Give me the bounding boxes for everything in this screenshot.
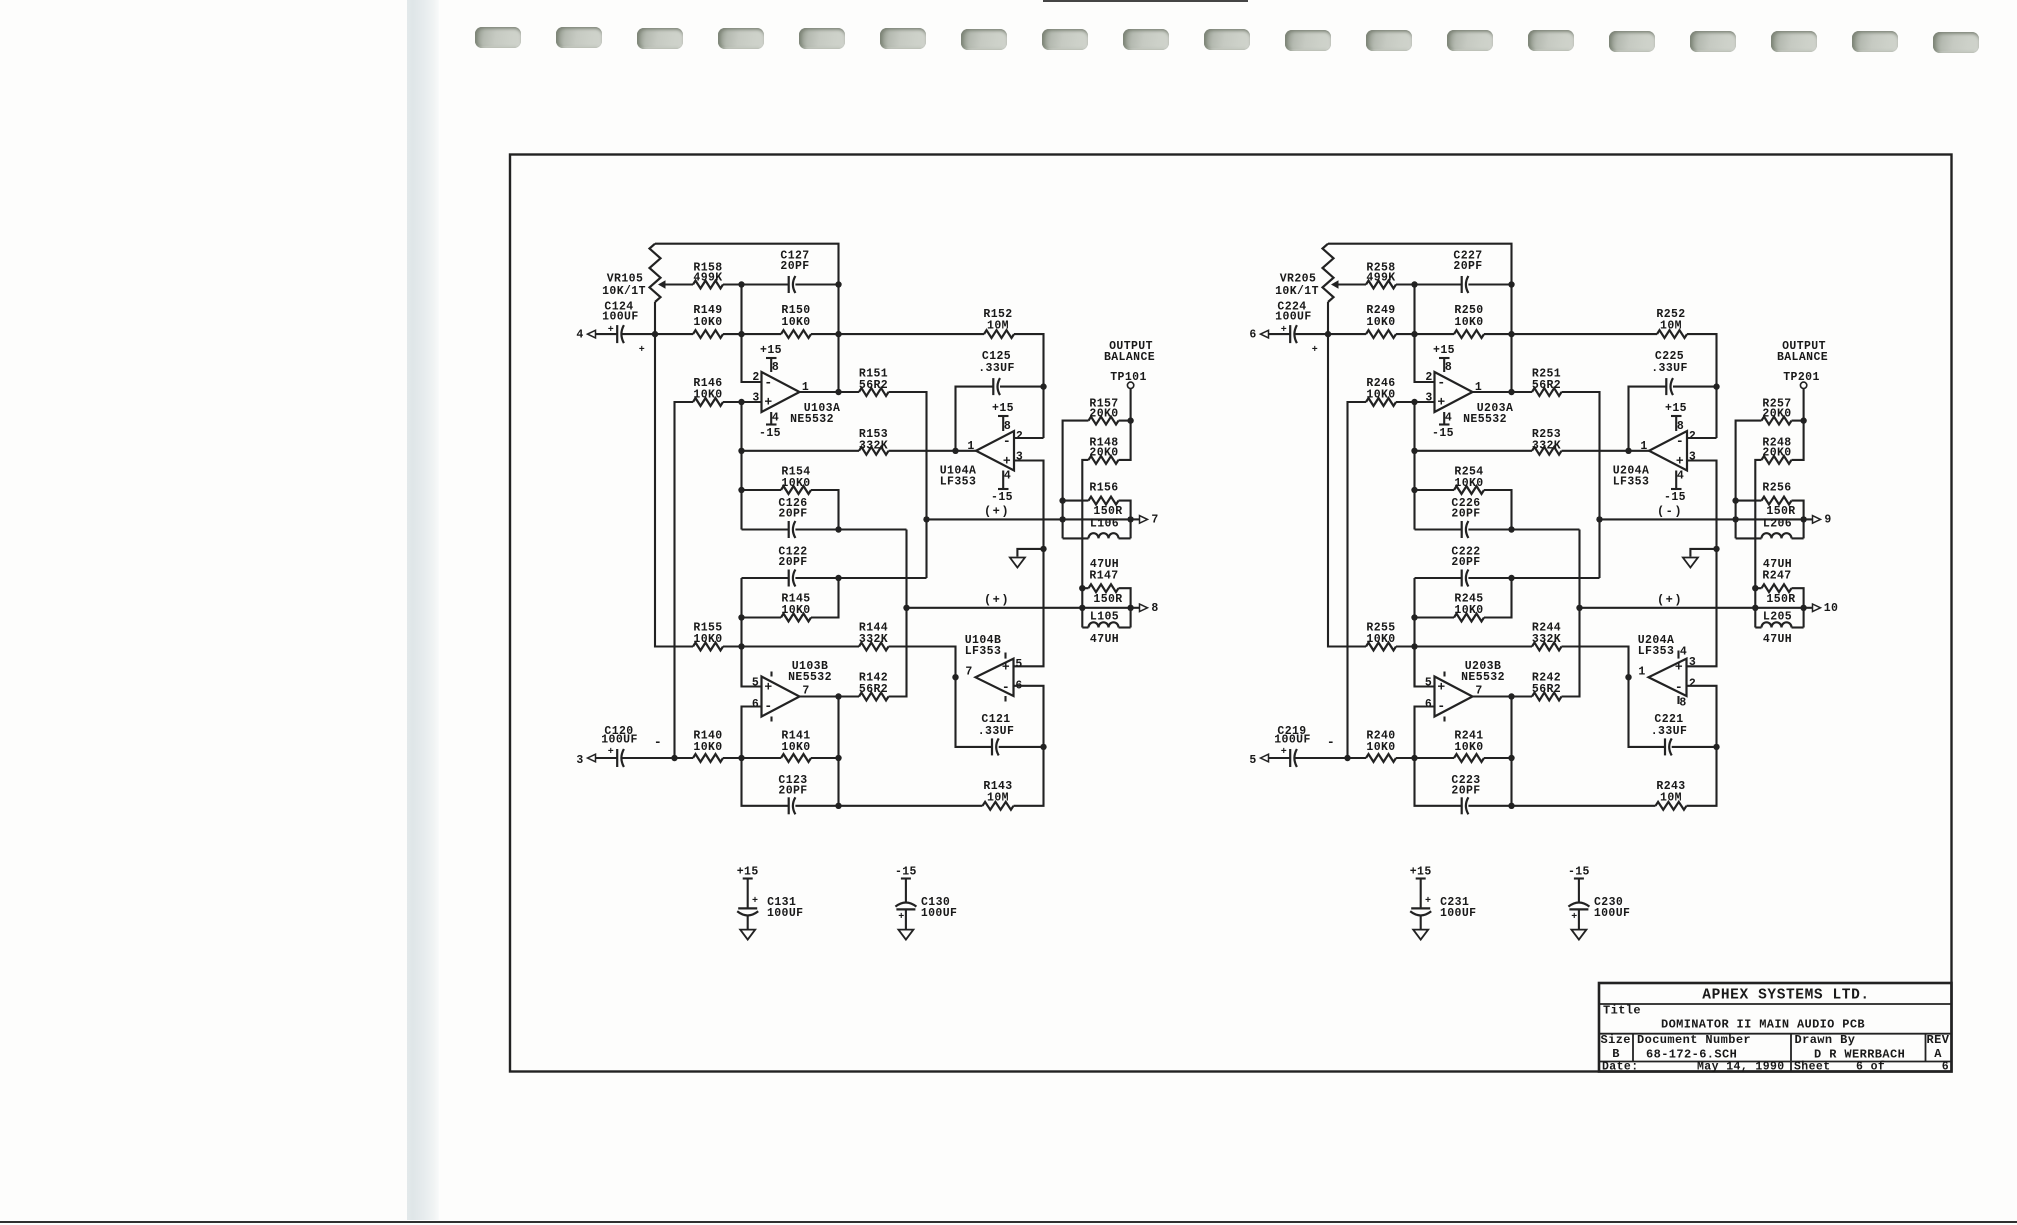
output terminal 10 bbox=[1804, 607, 1813, 609]
inductor L205 47UH bbox=[1762, 622, 1792, 627]
node bbox=[1508, 575, 1514, 581]
svg-text:LF353: LF353 bbox=[1638, 645, 1675, 658]
node bbox=[1508, 803, 1514, 809]
svg-text:1: 1 bbox=[1638, 666, 1645, 679]
resistor R248 20K0 bbox=[1762, 456, 1792, 464]
svg-text:R256: R256 bbox=[1762, 482, 1791, 495]
resistor R255 10K0 bbox=[1366, 643, 1396, 651]
capacitor C230 100UF polarized bbox=[1568, 902, 1589, 906]
svg-text:4: 4 bbox=[1677, 470, 1684, 483]
wire bbox=[1629, 387, 1667, 451]
svg-text:-: - bbox=[1437, 375, 1445, 390]
resistor R140 10K0 bbox=[693, 754, 723, 762]
wire vertical pin3 node bbox=[1413, 402, 1415, 530]
svg-text:R147: R147 bbox=[1089, 570, 1118, 583]
wire pin1 to node bbox=[1629, 450, 1650, 452]
node bbox=[1713, 546, 1719, 552]
wire bbox=[1269, 333, 1291, 335]
resistor R256 150R bbox=[1762, 497, 1792, 505]
resistor R148 20K0 bbox=[1089, 456, 1119, 464]
capacitor C120 100UF bbox=[616, 749, 618, 767]
svg-text:10K0: 10K0 bbox=[1454, 741, 1483, 754]
svg-text:+15: +15 bbox=[992, 402, 1014, 415]
node bbox=[1040, 383, 1046, 389]
resistor R258 499K bbox=[1366, 281, 1396, 289]
resistor R152 10M bbox=[984, 330, 1014, 338]
svg-text:10M: 10M bbox=[1660, 320, 1682, 333]
svg-text:10K0: 10K0 bbox=[693, 389, 722, 402]
ground bbox=[1017, 549, 1043, 557]
svg-text:3: 3 bbox=[1689, 451, 1696, 464]
svg-text:499K: 499K bbox=[1366, 272, 1395, 285]
wire bbox=[956, 677, 993, 747]
resistor R252 10M bbox=[1657, 330, 1687, 338]
resistor R242 56R2 bbox=[1532, 693, 1562, 701]
wire bbox=[1415, 577, 1462, 579]
wire bbox=[1736, 500, 1762, 502]
node bbox=[1576, 605, 1582, 611]
svg-text:REV: REV bbox=[1927, 1033, 1950, 1047]
wire output node vertical bbox=[1510, 697, 1512, 806]
capacitor C126 20PF bbox=[788, 521, 790, 538]
svg-text:332K: 332K bbox=[1532, 633, 1561, 646]
svg-text:-15: -15 bbox=[895, 866, 917, 879]
wire bbox=[742, 577, 789, 579]
wire bbox=[1484, 490, 1512, 530]
wire bbox=[1000, 386, 1044, 388]
svg-text:VR105: VR105 bbox=[607, 272, 644, 285]
node bbox=[835, 526, 841, 532]
resistor R151 56R2 bbox=[859, 388, 889, 396]
node bbox=[738, 281, 744, 287]
svg-text:6 of: 6 of bbox=[1856, 1061, 1885, 1074]
wire bbox=[1327, 302, 1329, 333]
svg-text:3: 3 bbox=[576, 754, 583, 767]
wire bbox=[795, 577, 926, 579]
wire bbox=[811, 757, 839, 759]
svg-text:7: 7 bbox=[1475, 685, 1482, 698]
svg-text:7: 7 bbox=[965, 666, 972, 679]
svg-text:10M: 10M bbox=[987, 792, 1009, 805]
wire bbox=[795, 283, 838, 285]
svg-text:7: 7 bbox=[802, 685, 809, 698]
wire bbox=[1296, 333, 1329, 335]
svg-text:L105: L105 bbox=[1090, 611, 1119, 624]
svg-text:+: + bbox=[1281, 325, 1287, 336]
svg-text:.33UF: .33UF bbox=[1651, 362, 1688, 375]
wire pin6 to C121 bbox=[1687, 686, 1717, 747]
svg-text:2: 2 bbox=[1689, 678, 1696, 691]
title block row dividers bbox=[1599, 1003, 1952, 1005]
svg-text:20PF: 20PF bbox=[778, 556, 807, 569]
resistor R150 10K0 bbox=[781, 330, 811, 338]
wire bbox=[925, 519, 927, 578]
wire bbox=[956, 387, 994, 451]
svg-text:LF353: LF353 bbox=[940, 476, 977, 489]
capacitor C225 .33UF bbox=[1665, 378, 1667, 395]
node bbox=[671, 755, 677, 761]
svg-text:+: + bbox=[608, 747, 614, 758]
wire bbox=[740, 285, 742, 335]
wire bbox=[839, 391, 860, 393]
node bbox=[738, 331, 744, 337]
svg-text:10M: 10M bbox=[1660, 792, 1682, 805]
svg-text:2: 2 bbox=[1425, 371, 1432, 384]
svg-text:20PF: 20PF bbox=[780, 260, 809, 273]
wire bbox=[1736, 421, 1762, 539]
svg-text:A: A bbox=[1934, 1047, 1942, 1061]
svg-text:(+): (+) bbox=[984, 593, 1010, 607]
inductor L206 47UH bbox=[1762, 533, 1792, 538]
power -15 supply bbox=[770, 412, 772, 425]
wire bbox=[889, 392, 927, 519]
svg-text:20PF: 20PF bbox=[778, 508, 807, 521]
svg-text:5: 5 bbox=[1249, 754, 1256, 767]
wire bbox=[795, 805, 982, 807]
wire bbox=[795, 528, 906, 530]
svg-text:4: 4 bbox=[576, 328, 583, 341]
svg-text:10K0: 10K0 bbox=[781, 741, 810, 754]
wire bbox=[723, 333, 781, 335]
node bbox=[1713, 744, 1719, 750]
capacitor C123 20PF bbox=[788, 797, 790, 814]
svg-text:.33UF: .33UF bbox=[978, 725, 1015, 738]
wire bbox=[889, 608, 907, 697]
node bbox=[738, 614, 744, 620]
node bbox=[1752, 585, 1758, 591]
svg-text:100UF: 100UF bbox=[602, 310, 639, 323]
wire vertical pin3 node bbox=[740, 402, 742, 530]
svg-text:+15: +15 bbox=[737, 866, 759, 879]
wire pin3 bbox=[1687, 461, 1717, 667]
svg-text:20K0: 20K0 bbox=[1089, 408, 1118, 421]
wire bbox=[1736, 537, 1762, 539]
power -15 supply bbox=[1002, 471, 1004, 490]
wire bbox=[1396, 333, 1454, 335]
svg-text:+15: +15 bbox=[760, 344, 782, 357]
wire bbox=[723, 645, 859, 647]
wire bbox=[1755, 626, 1761, 628]
wire bbox=[655, 333, 693, 335]
wire bbox=[1119, 421, 1131, 460]
svg-text:BALANCE: BALANCE bbox=[1777, 351, 1828, 364]
svg-text:.33UF: .33UF bbox=[1651, 725, 1688, 738]
svg-text:10K0: 10K0 bbox=[693, 316, 722, 329]
op-amp U104B LF353 bbox=[976, 659, 1014, 696]
wire bbox=[1484, 578, 1512, 618]
wire bbox=[1396, 757, 1454, 759]
output terminal 9 bbox=[1804, 518, 1813, 520]
node bbox=[1732, 497, 1738, 503]
svg-text:100UF: 100UF bbox=[1274, 734, 1311, 747]
wire bbox=[1578, 578, 1580, 608]
node pin3 bbox=[738, 399, 744, 405]
svg-text:3: 3 bbox=[752, 392, 759, 405]
resistor R250 10K0 bbox=[1454, 330, 1484, 338]
svg-text:APHEX SYSTEMS LTD.: APHEX SYSTEMS LTD. bbox=[1702, 987, 1869, 1003]
wire bbox=[1792, 626, 1804, 628]
svg-text:20PF: 20PF bbox=[778, 785, 807, 798]
svg-text:(-): (-) bbox=[1657, 505, 1683, 519]
svg-text:Document Number: Document Number bbox=[1637, 1033, 1751, 1047]
resistor R146 10K0 bbox=[693, 398, 723, 406]
wire pin2 feed bbox=[1415, 334, 1435, 382]
svg-text:56R2: 56R2 bbox=[859, 683, 888, 696]
wire bbox=[1792, 501, 1804, 539]
svg-text:NE5532: NE5532 bbox=[1463, 413, 1507, 426]
wire bbox=[1598, 519, 1600, 578]
resistor R155 10K0 bbox=[693, 643, 723, 651]
svg-text:1: 1 bbox=[1475, 381, 1482, 394]
svg-text:4: 4 bbox=[1445, 412, 1452, 425]
svg-text:100UF: 100UF bbox=[1440, 907, 1477, 920]
capacitor C224 100UF bbox=[1289, 325, 1291, 343]
svg-text:-15: -15 bbox=[1432, 427, 1454, 440]
ground bbox=[1413, 930, 1428, 940]
wire bbox=[654, 302, 656, 333]
svg-text:L206: L206 bbox=[1763, 518, 1792, 531]
wire bbox=[1296, 757, 1348, 759]
svg-text:+: + bbox=[1571, 912, 1577, 923]
node bbox=[1059, 497, 1065, 503]
svg-text:6: 6 bbox=[1425, 698, 1432, 711]
node bbox=[835, 389, 841, 395]
svg-text:5: 5 bbox=[1425, 677, 1432, 690]
svg-text:20PF: 20PF bbox=[1451, 785, 1480, 798]
svg-text:332K: 332K bbox=[859, 440, 888, 453]
svg-text:Sheet: Sheet bbox=[1794, 1061, 1831, 1074]
svg-text:4: 4 bbox=[1680, 646, 1687, 659]
svg-text:+: + bbox=[1002, 659, 1010, 674]
wire bbox=[1269, 757, 1291, 759]
svg-text:+: + bbox=[898, 912, 904, 923]
wire bbox=[1348, 402, 1367, 758]
svg-text:R156: R156 bbox=[1089, 482, 1118, 495]
svg-text:+: + bbox=[1425, 896, 1431, 907]
page bottom edge line bbox=[0, 1221, 2017, 1224]
wire bbox=[1792, 420, 1804, 422]
wire output U103A pin1 bbox=[800, 391, 839, 393]
wire pin2 feed bbox=[742, 334, 762, 382]
svg-text:-: - bbox=[1327, 734, 1335, 749]
net (+) lower output row bbox=[1580, 607, 1804, 609]
svg-text:2: 2 bbox=[1689, 430, 1696, 443]
resistor R141 10K0 bbox=[781, 754, 811, 762]
svg-text:TP101: TP101 bbox=[1110, 371, 1147, 384]
svg-text:10K0: 10K0 bbox=[693, 741, 722, 754]
svg-text:150R: 150R bbox=[1766, 593, 1795, 606]
svg-text:20K0: 20K0 bbox=[1089, 447, 1118, 460]
capacitor C130 100UF polarized bbox=[895, 902, 916, 906]
node bbox=[835, 803, 841, 809]
node bbox=[1411, 643, 1417, 649]
wire bbox=[1687, 334, 1717, 438]
op-amp U104A LF353 bbox=[976, 431, 1014, 471]
wire bbox=[742, 616, 782, 618]
svg-text:(+): (+) bbox=[984, 505, 1010, 519]
wire bbox=[1512, 391, 1533, 393]
wire bbox=[811, 578, 839, 618]
svg-text:-: - bbox=[764, 698, 772, 713]
wire bbox=[1415, 758, 1462, 806]
wire bbox=[675, 757, 694, 759]
svg-text:+: + bbox=[608, 325, 614, 336]
wire bbox=[1562, 450, 1629, 452]
wire bbox=[723, 757, 781, 759]
svg-text:100UF: 100UF bbox=[1275, 310, 1312, 323]
node bbox=[738, 487, 744, 493]
wire bbox=[1562, 392, 1600, 519]
inductor L105 47UH bbox=[1089, 622, 1119, 627]
wire bbox=[1562, 647, 1629, 678]
svg-text:68-172-6.SCH: 68-172-6.SCH bbox=[1646, 1048, 1737, 1062]
title block column dividers bbox=[1632, 1034, 1634, 1062]
svg-text:8: 8 bbox=[1151, 602, 1158, 615]
svg-text:+: + bbox=[1675, 659, 1683, 674]
op-amp U204A LF353 bbox=[1649, 659, 1687, 696]
node bbox=[1800, 417, 1806, 423]
node pin3 bbox=[1411, 399, 1417, 405]
power -15 supply bbox=[1443, 412, 1445, 425]
svg-text:10K0: 10K0 bbox=[1366, 633, 1395, 646]
svg-text:10: 10 bbox=[1824, 602, 1839, 615]
svg-text:-: - bbox=[1437, 698, 1445, 713]
wire bbox=[742, 528, 789, 530]
wire bbox=[1468, 577, 1599, 579]
output terminal 8 bbox=[1131, 607, 1140, 609]
wire pin3 bbox=[1014, 461, 1044, 667]
svg-text:10K0: 10K0 bbox=[1366, 741, 1395, 754]
node bbox=[1508, 693, 1514, 699]
resistor R257 20K0 bbox=[1762, 417, 1792, 425]
wire bbox=[889, 450, 956, 452]
svg-text:L205: L205 bbox=[1763, 611, 1792, 624]
resistor R147 150R bbox=[1089, 584, 1119, 592]
resistor R244 332K bbox=[1532, 643, 1562, 651]
node bbox=[923, 516, 929, 522]
wire bbox=[1672, 746, 1717, 748]
svg-text:DOMINATOR II MAIN AUDIO PCB: DOMINATOR II MAIN AUDIO PCB bbox=[1661, 1018, 1865, 1032]
svg-text:20PF: 20PF bbox=[1451, 508, 1480, 521]
svg-text:100UF: 100UF bbox=[767, 907, 804, 920]
wire vertical bbox=[740, 578, 742, 687]
svg-text:8: 8 bbox=[1445, 361, 1452, 374]
resistor R247 150R bbox=[1762, 584, 1792, 592]
svg-text:-15: -15 bbox=[991, 491, 1013, 504]
svg-text:499K: 499K bbox=[693, 272, 722, 285]
capacitor C127 20PF bbox=[788, 276, 790, 293]
node bbox=[1411, 755, 1417, 761]
svg-text:D R WERRBACH: D R WERRBACH bbox=[1814, 1048, 1905, 1062]
wire bbox=[905, 909, 907, 929]
svg-text:+: + bbox=[1676, 453, 1684, 468]
node bbox=[738, 448, 744, 454]
wire bbox=[1755, 460, 1761, 628]
svg-text:Title: Title bbox=[1603, 1004, 1641, 1018]
wire bbox=[1792, 537, 1804, 539]
svg-text:100UF: 100UF bbox=[601, 734, 638, 747]
wire bbox=[1119, 420, 1131, 422]
op-amp U203A NE5532 bbox=[1435, 372, 1473, 412]
node bbox=[1040, 546, 1046, 552]
inductor L106 47UH bbox=[1089, 533, 1119, 538]
wire bbox=[623, 333, 656, 335]
wire top loop bbox=[655, 244, 839, 392]
resistor R144 332K bbox=[859, 643, 889, 651]
node bbox=[835, 693, 841, 699]
wire pin6 bbox=[1415, 707, 1435, 759]
node bbox=[903, 605, 909, 611]
resistor R240 10K0 bbox=[1366, 754, 1396, 762]
node bbox=[738, 643, 744, 649]
svg-text:332K: 332K bbox=[859, 633, 888, 646]
wire bbox=[596, 333, 618, 335]
net (+) upper output row bbox=[927, 518, 1131, 520]
svg-text:10K0: 10K0 bbox=[781, 316, 810, 329]
svg-text:5: 5 bbox=[752, 677, 759, 690]
svg-text:3: 3 bbox=[1425, 392, 1432, 405]
svg-text:8: 8 bbox=[772, 361, 779, 374]
wire bbox=[1468, 283, 1511, 285]
svg-text:NE5532: NE5532 bbox=[790, 413, 834, 426]
wire bbox=[1468, 805, 1655, 807]
wire bbox=[999, 746, 1044, 748]
svg-text:+: + bbox=[764, 679, 772, 694]
wire bbox=[747, 916, 749, 930]
resistor R143 10M bbox=[983, 802, 1014, 810]
svg-text:8: 8 bbox=[1679, 697, 1686, 710]
wire bbox=[1562, 608, 1580, 697]
node pin output bbox=[952, 674, 958, 680]
wire bbox=[1413, 285, 1415, 335]
wire bbox=[1468, 528, 1579, 530]
net (+) lower output row bbox=[907, 607, 1131, 609]
svg-text:+: + bbox=[1437, 394, 1445, 409]
wire bbox=[1339, 283, 1367, 285]
wire bbox=[1063, 537, 1089, 539]
svg-text:20PF: 20PF bbox=[1453, 260, 1482, 273]
schematic frame border bbox=[510, 155, 1952, 1072]
svg-text:(+): (+) bbox=[1657, 593, 1683, 607]
pin stub 8 bbox=[1677, 696, 1679, 704]
wire pin5 bbox=[1415, 647, 1435, 687]
net (-) upper output row bbox=[1600, 518, 1804, 520]
svg-text:10M: 10M bbox=[987, 320, 1009, 333]
svg-text:9: 9 bbox=[1824, 514, 1831, 527]
svg-text:3: 3 bbox=[1689, 656, 1696, 669]
wire pin1 to node bbox=[956, 450, 977, 452]
resistor R254 10K0 bbox=[1454, 486, 1484, 494]
svg-text:10K0: 10K0 bbox=[1454, 604, 1483, 617]
svg-text:20PF: 20PF bbox=[1451, 556, 1480, 569]
wire bbox=[811, 333, 839, 335]
svg-text:+: + bbox=[1003, 453, 1011, 468]
wire bbox=[1415, 450, 1533, 452]
node bbox=[1127, 417, 1133, 423]
wire bbox=[1014, 334, 1044, 438]
wire bbox=[1396, 401, 1435, 403]
svg-text:56R2: 56R2 bbox=[1532, 683, 1561, 696]
wire bbox=[596, 757, 618, 759]
svg-text:NE5532: NE5532 bbox=[788, 671, 832, 684]
svg-text:8: 8 bbox=[1004, 420, 1011, 433]
svg-text:R247: R247 bbox=[1762, 570, 1791, 583]
capacitor C121 .33UF bbox=[991, 738, 993, 755]
resistor R243 10M bbox=[1656, 802, 1687, 810]
svg-text:+: + bbox=[639, 345, 645, 356]
svg-text:-15: -15 bbox=[1664, 491, 1686, 504]
wire bbox=[666, 283, 694, 285]
